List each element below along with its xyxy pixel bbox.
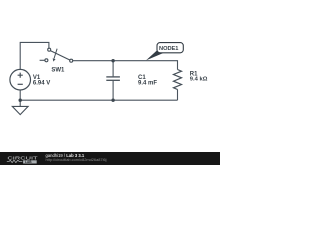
svg-text:NODE1: NODE1 (159, 46, 178, 52)
junction dot V1/ground/rail (19, 99, 22, 102)
wire R1 bottom lead (177, 90, 179, 101)
CircuitLab logo LAB badge (23, 160, 37, 163)
SW1 toggle arrowhead (53, 58, 56, 61)
wire top-left rail: V1 top to switch throw lead (20, 42, 49, 69)
svg-text:CIRCUIT: CIRCUIT (7, 156, 38, 161)
svg-text:6.94 V: 6.94 V (33, 80, 50, 86)
resistor R1 (174, 70, 182, 90)
junction dot C1 top (111, 59, 114, 62)
wire C1 leads (112, 61, 114, 100)
footer watermark bar (0, 152, 220, 165)
wire SW1 open throw stub (40, 59, 45, 61)
wire bottom rail (20, 99, 177, 101)
svg-text:SW1: SW1 (51, 68, 65, 74)
svg-text:9.4 kΩ: 9.4 kΩ (190, 77, 208, 83)
node NODE1 callout box (157, 43, 183, 53)
SW1 throw terminal (open) (45, 59, 48, 62)
junction dot C1 bottom (111, 99, 114, 102)
svg-text:9.4 mF: 9.4 mF (138, 80, 157, 86)
capacitor C1 (106, 77, 120, 80)
voltage source V1 (10, 69, 31, 90)
SW1 actuator bar (51, 51, 70, 60)
wire switch common to R1 top (73, 61, 178, 70)
switch SW1 (45, 48, 73, 62)
CircuitLab logo resistor zigzag (7, 160, 22, 162)
ground (12, 106, 28, 114)
SW1 toggle arrow (54, 49, 57, 59)
wire V1 bottom to bottom rail (19, 90, 21, 100)
SW1 throw terminal (top) (48, 48, 51, 51)
wire ground stub (19, 100, 21, 106)
svg-text:http://circuitlab.com/c82md26a: http://circuitlab.com/c82md26a87l6j (46, 157, 107, 162)
svg-text:LAB: LAB (25, 160, 32, 164)
node NODE1 callout tail (146, 50, 164, 60)
SW1 common terminal (70, 59, 73, 62)
